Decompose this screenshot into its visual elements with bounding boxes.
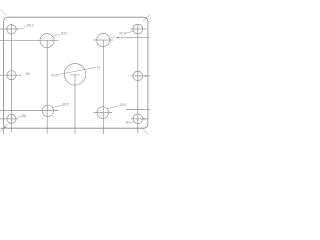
corner leader bottom-left (0, 124, 8, 132)
hole C10 bottom-left (7, 114, 16, 123)
arrowhead bottom-left corner (3, 126, 5, 129)
hole C7 mid-right (133, 71, 143, 81)
left edge extension below (3, 126, 5, 135)
centerline C11 horizontal to edge (131, 118, 148, 120)
leader C8 (53, 105, 62, 107)
svg-text:Ø6: Ø6 (126, 120, 130, 124)
plate outline (4, 17, 148, 128)
svg-text:Ø10: Ø10 (61, 32, 68, 36)
arrowhead C11 (143, 118, 145, 120)
centerline column x=11.5 (11, 24, 13, 133)
hole C3 upper-left inner (40, 34, 54, 48)
hole C6 center big (64, 64, 86, 86)
arrowhead dimension right (116, 37, 119, 39)
centerline C7 horizontal to edge (131, 75, 150, 77)
hole C8 lower-left inner (42, 105, 53, 116)
svg-text:Ø6: Ø6 (22, 114, 27, 118)
hole C5 mid-left (7, 71, 16, 80)
bottom edge extension left (0, 127, 8, 129)
centerline column x=47.2 (46, 41, 48, 134)
leader C2 from label (125, 31, 133, 33)
centerline C2 horizontal (131, 28, 147, 30)
centerline column x=137.8 (137, 24, 139, 133)
leader C3 (52, 35, 61, 37)
leader C1 (17, 26, 27, 29)
svg-text:Ø15: Ø15 (51, 73, 58, 77)
centerline C5 horizontal (0, 74, 20, 76)
leader C9 (107, 106, 119, 109)
leader C4 (110, 36, 115, 38)
hole C1 top-left (7, 25, 16, 34)
hole C11 bottom-right (133, 114, 143, 124)
centerline C3 row horizontal (0, 39, 59, 41)
dimension line right y=37.8 (116, 37, 150, 39)
center tick C6 (70, 74, 80, 76)
svg-text:Ø15: Ø15 (120, 103, 127, 107)
hole C2 top-right (133, 24, 143, 34)
centerline C4 horizontal (93, 39, 113, 41)
corner leader bottom-right (141, 127, 148, 134)
dimension line right y=109.6 (126, 109, 150, 111)
centerline column x=75 (74, 74, 76, 134)
hole C4 upper-right inner (97, 33, 110, 46)
svg-text:Ø6: Ø6 (26, 72, 31, 76)
leader C6 through center (58, 67, 97, 74)
centerline C8 row horizontal (0, 110, 59, 112)
hole C9 lower-right inner (97, 107, 109, 119)
centerline C1 horizontal (0, 28, 19, 30)
tick C5 (19, 74, 21, 77)
corner leader top-left (0, 10, 6, 16)
leader C11 (130, 121, 134, 123)
centerline column x=103.3 (102, 40, 104, 134)
corner leader top-right (143, 15, 150, 21)
arrowhead C7 edge (145, 75, 148, 77)
centerline C9 horizontal (94, 112, 113, 114)
svg-text:15: 15 (97, 65, 101, 69)
centerline C10 horizontal (0, 118, 18, 120)
svg-text:Ø10: Ø10 (27, 24, 34, 28)
svg-text:Ø10: Ø10 (119, 32, 126, 36)
leader C10 (18, 116, 22, 118)
svg-text:Ø15: Ø15 (62, 103, 69, 107)
